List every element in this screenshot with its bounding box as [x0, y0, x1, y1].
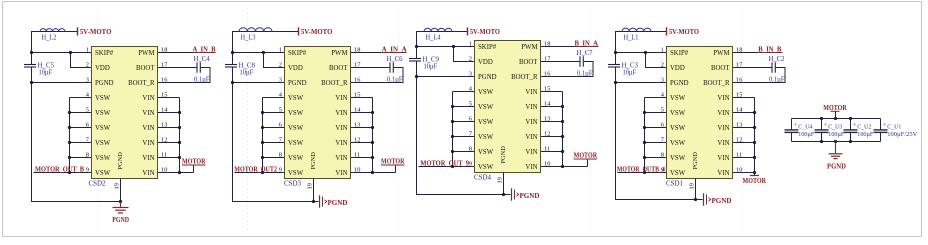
- svg-text:14: 14: [354, 106, 361, 113]
- svg-text:16: 16: [354, 76, 360, 83]
- svg-text:C_U3: C_U3: [828, 123, 843, 130]
- junctions VSW bus block3: [451, 105, 454, 108]
- svg-text:15: 15: [736, 91, 742, 98]
- svg-text:B_IN_B: B_IN_B: [758, 46, 781, 53]
- wire pin17 BOOT block1: [158, 67, 197, 69]
- svg-text:13: 13: [354, 121, 360, 128]
- svg-text:VSW: VSW: [478, 134, 494, 141]
- svg-text:17: 17: [354, 61, 361, 68]
- IC CSD2: [92, 47, 158, 179]
- junction pin3 block3: [415, 75, 418, 78]
- svg-text:VIN: VIN: [525, 104, 537, 111]
- wire PGND return block1: [32, 67, 121, 202]
- svg-text:17: 17: [544, 55, 551, 62]
- wire pin2 VDD elbow block3: [454, 47, 475, 62]
- svg-text:14: 14: [544, 100, 551, 107]
- wire pin18 PWM block3: [541, 46, 575, 48]
- svg-text:VDD: VDD: [478, 59, 493, 66]
- svg-text:6: 6: [661, 121, 664, 128]
- wires VSW pins 4-9 block4: [644, 98, 646, 173]
- svg-text:PGND: PGND: [478, 74, 497, 81]
- svg-text:MOTOR: MOTOR: [381, 157, 405, 165]
- svg-text:PWM: PWM: [713, 50, 729, 57]
- svg-text:VSW: VSW: [288, 140, 304, 147]
- svg-text:+: +: [853, 122, 857, 129]
- wire pin1 SKIP# block3: [417, 46, 475, 48]
- svg-text:VIN: VIN: [142, 170, 154, 177]
- svg-text:13: 13: [161, 121, 167, 128]
- svg-text:16: 16: [736, 76, 742, 83]
- capacitor H_C8 10uF: [225, 64, 237, 66]
- power port 5V-MOTO block4: [666, 27, 668, 35]
- svg-text:PGND: PGND: [827, 162, 846, 170]
- power port 5V-MOTO block3: [467, 27, 469, 35]
- svg-text:CSD4: CSD4: [474, 174, 491, 182]
- power port MOTOR block3: [563, 166, 588, 168]
- svg-text:16: 16: [161, 76, 167, 83]
- wires VSW pins 4-9 block1: [69, 98, 71, 173]
- svg-text:VIN: VIN: [525, 164, 537, 171]
- junction pin19 block1: [119, 200, 122, 203]
- pin names left block1: [95, 50, 114, 177]
- svg-text:VSW: VSW: [670, 125, 686, 132]
- capacitor H_C2 0.1uF: [771, 62, 773, 72]
- svg-text:19: 19: [307, 183, 314, 189]
- junction pin19 block3: [502, 193, 505, 196]
- capacitor H_C6 0.1uF: [389, 62, 391, 72]
- capacitor C_U3: [821, 119, 823, 130]
- wire pin16 BOOT_R loop block3: [541, 62, 594, 77]
- svg-text:PGND: PGND: [95, 80, 114, 87]
- svg-text:17: 17: [161, 61, 168, 68]
- svg-text:10µF: 10µF: [424, 63, 438, 70]
- svg-text:VIN: VIN: [142, 155, 154, 162]
- ground PGND bank: [835, 142, 837, 154]
- svg-text:C_U4: C_U4: [798, 123, 813, 130]
- svg-text:11: 11: [161, 151, 167, 158]
- svg-text:14: 14: [736, 106, 743, 113]
- svg-text:SKIP#: SKIP#: [95, 50, 114, 57]
- svg-text:9: 9: [86, 166, 89, 173]
- svg-text:15: 15: [544, 85, 550, 92]
- wires VSW pins 4-9 block3: [452, 92, 454, 167]
- svg-text:12: 12: [161, 136, 167, 143]
- svg-text:VIN: VIN: [717, 95, 729, 102]
- wire pin16 BOOT_R loop block1: [158, 68, 211, 83]
- svg-text:CSD2: CSD2: [89, 180, 106, 188]
- junction pin3 block2: [231, 81, 234, 84]
- capacitor C_U1: [880, 119, 882, 130]
- wire 5V-MOTO rail block1: [32, 32, 78, 65]
- svg-text:PWM: PWM: [138, 50, 154, 57]
- junction pin1 bus block3: [415, 45, 418, 48]
- svg-text:8: 8: [661, 151, 664, 158]
- svg-text:18: 18: [354, 46, 360, 53]
- svg-text:BOOT: BOOT: [519, 59, 538, 66]
- svg-text:VIN: VIN: [717, 125, 729, 132]
- svg-text:5V-MOTO: 5V-MOTO: [669, 27, 699, 36]
- wire pin2 VDD elbow block2: [264, 53, 285, 68]
- svg-text:13: 13: [736, 121, 742, 128]
- svg-text:VDD: VDD: [288, 65, 303, 72]
- svg-text:VIN: VIN: [717, 170, 729, 177]
- junctions VIN bus block4: [753, 111, 756, 114]
- wire pin17 BOOT block2: [351, 67, 390, 69]
- svg-text:VSW: VSW: [95, 170, 111, 177]
- svg-text:PGND: PGND: [117, 152, 124, 170]
- svg-text:VSW: VSW: [95, 140, 111, 147]
- svg-text:VIN: VIN: [717, 140, 729, 147]
- svg-text:10: 10: [544, 160, 550, 167]
- svg-text:C_U2: C_U2: [857, 123, 871, 130]
- wire MOTOR_OUT block3: [419, 166, 453, 168]
- junction pin3 block4: [614, 81, 617, 84]
- wire MOTOR_OUT block4: [618, 172, 645, 174]
- svg-text:3: 3: [279, 76, 282, 83]
- svg-text:MOTOR: MOTOR: [823, 104, 847, 112]
- wire pin19 block4: [695, 179, 697, 200]
- svg-text:2: 2: [279, 61, 282, 68]
- pin names right block1: [128, 50, 155, 177]
- inductor H_L2: [40, 29, 65, 32]
- svg-text:VIN: VIN: [335, 110, 347, 117]
- pin names right block4: [703, 50, 730, 177]
- capacitor H_C7 0.1uF: [579, 56, 581, 66]
- svg-text:MOTOR_OUT_9: MOTOR_OUT_9: [420, 160, 469, 168]
- svg-text:19: 19: [689, 183, 696, 189]
- power port PGND block3: [511, 188, 513, 200]
- svg-text:VSW: VSW: [478, 119, 494, 126]
- svg-text:5: 5: [279, 106, 282, 113]
- svg-text:8: 8: [279, 151, 282, 158]
- svg-text:BOOT: BOOT: [711, 65, 730, 72]
- wires VIN pins 10-15 block2: [372, 98, 374, 173]
- junction pin19 block2: [312, 200, 315, 203]
- svg-text:3: 3: [469, 70, 472, 77]
- svg-text:VSW: VSW: [478, 89, 494, 96]
- svg-text:VIN: VIN: [335, 155, 347, 162]
- power port MOTOR block1: [180, 172, 194, 174]
- svg-text:PGND: PGND: [670, 80, 689, 87]
- svg-text:19: 19: [114, 183, 121, 189]
- wire pin1 SKIP# block4: [616, 52, 667, 54]
- IC CSD1: [667, 47, 733, 179]
- capacitor H_C3 10uF: [608, 64, 620, 66]
- svg-text:100µF: 100µF: [798, 131, 814, 138]
- svg-text:MOTOR: MOTOR: [574, 151, 598, 159]
- svg-text:CSD1: CSD1: [666, 180, 683, 188]
- svg-text:VIN: VIN: [525, 134, 537, 141]
- svg-text:H_C3: H_C3: [622, 61, 639, 69]
- svg-text:2: 2: [469, 55, 472, 62]
- svg-text:VIN: VIN: [525, 89, 537, 96]
- svg-text:12: 12: [544, 130, 550, 137]
- svg-text:6: 6: [279, 121, 282, 128]
- svg-text:MOTOR_OUT2: MOTOR_OUT2: [234, 166, 277, 174]
- wire MOTOR top rail: [792, 118, 881, 120]
- svg-text:6: 6: [469, 115, 472, 122]
- svg-text:SKIP#: SKIP#: [670, 50, 689, 57]
- wire PGND return block3: [417, 61, 511, 195]
- pin numbers right block2: [354, 46, 361, 173]
- svg-text:100µF: 100µF: [828, 131, 844, 138]
- svg-text:VDD: VDD: [670, 65, 685, 72]
- svg-text:18: 18: [736, 46, 742, 53]
- svg-text:16: 16: [544, 70, 550, 77]
- svg-text:1: 1: [279, 46, 282, 53]
- svg-text:8: 8: [469, 145, 472, 152]
- pin numbers left block4: [661, 46, 665, 173]
- svg-text:H_L1: H_L1: [624, 34, 639, 42]
- pin names left block2: [288, 50, 307, 177]
- wires VSW pins 4-9 block2: [262, 98, 264, 173]
- wire 5V-MOTO rail block4: [616, 32, 667, 65]
- wire pin19 block1: [120, 179, 122, 202]
- svg-text:VIN: VIN: [142, 140, 154, 147]
- power port MOTOR bank: [835, 111, 837, 118]
- svg-text:VSW: VSW: [670, 170, 686, 177]
- svg-text:5V-MOTO: 5V-MOTO: [80, 27, 112, 36]
- svg-text:H_C6: H_C6: [387, 55, 403, 63]
- junction pin1 bus block2: [231, 51, 234, 54]
- wire pin3 PGND block3: [417, 76, 475, 78]
- svg-text:+: +: [824, 122, 828, 129]
- svg-text:11: 11: [354, 151, 360, 158]
- svg-text:VSW: VSW: [670, 110, 686, 117]
- svg-text:BOOT_R: BOOT_R: [511, 74, 538, 81]
- junction pin19 block4: [694, 198, 697, 201]
- power port 5V-MOTO block1: [77, 27, 79, 35]
- IC CSD4: [475, 41, 541, 173]
- wire pin17 BOOT block4: [733, 67, 772, 69]
- wire pin19 block2: [313, 179, 315, 202]
- svg-text:PGND: PGND: [520, 192, 540, 200]
- svg-text:5V-MOTO: 5V-MOTO: [301, 27, 333, 36]
- capacitor C_U4: [791, 119, 793, 130]
- svg-text:VIN: VIN: [335, 125, 347, 132]
- wire MOTOR_OUT block1: [34, 172, 70, 174]
- svg-text:VSW: VSW: [95, 110, 111, 117]
- wire pin16 BOOT_R loop block2: [351, 68, 404, 83]
- pin numbers left block2: [279, 46, 283, 173]
- capacitor H_C4 0.1uF: [196, 62, 198, 72]
- svg-text:VIN: VIN: [525, 149, 537, 156]
- svg-text:5: 5: [469, 100, 472, 107]
- wire pin3 PGND block2: [233, 82, 285, 84]
- svg-text:VSW: VSW: [288, 95, 304, 102]
- svg-text:VIN: VIN: [335, 95, 347, 102]
- svg-text:CSD3: CSD3: [284, 180, 301, 188]
- wire pin18 PWM block4: [733, 52, 759, 54]
- svg-text:MOTOR_OUTB_4: MOTOR_OUTB_4: [617, 166, 665, 174]
- svg-text:100µF: 100µF: [857, 131, 873, 138]
- svg-text:VSW: VSW: [478, 149, 494, 156]
- wire PGND return block4: [616, 67, 703, 200]
- wire PGND bottom rail: [792, 141, 881, 143]
- svg-text:+: +: [883, 122, 887, 129]
- svg-text:VSW: VSW: [288, 155, 304, 162]
- wires VIN pins 10-15 block4: [754, 98, 756, 176]
- svg-text:100µF/25V: 100µF/25V: [887, 131, 917, 138]
- svg-text:5V-MOTO: 5V-MOTO: [470, 27, 500, 36]
- wire MOTOR_OUT block2: [235, 172, 263, 174]
- wire pin17 BOOT block3: [541, 61, 580, 63]
- svg-text:VIN: VIN: [142, 125, 154, 132]
- svg-text:VSW: VSW: [95, 125, 111, 132]
- svg-text:PGND: PGND: [328, 199, 348, 207]
- wire 5V-MOTO rail block2: [233, 32, 299, 65]
- inductor H_L1: [622, 28, 651, 31]
- svg-text:3: 3: [661, 76, 664, 83]
- svg-text:VSW: VSW: [670, 155, 686, 162]
- wire pin1 SKIP# block1: [32, 52, 92, 54]
- svg-text:10µF: 10µF: [623, 69, 637, 76]
- junctions top rail: [820, 117, 823, 120]
- svg-text:H_L3: H_L3: [241, 34, 256, 42]
- svg-text:BOOT: BOOT: [329, 65, 348, 72]
- svg-text:H_C2: H_C2: [769, 55, 785, 63]
- svg-text:PWM: PWM: [331, 50, 347, 57]
- svg-text:H_L2: H_L2: [42, 34, 57, 42]
- junctions VSW bus block1: [68, 111, 71, 114]
- svg-text:PWM: PWM: [521, 44, 537, 51]
- svg-text:18: 18: [544, 40, 550, 47]
- wires VIN pins 10-15 block3: [562, 92, 564, 167]
- svg-text:10: 10: [161, 166, 167, 173]
- svg-text:BOOT_R: BOOT_R: [128, 80, 155, 87]
- svg-text:VSW: VSW: [95, 155, 111, 162]
- junction pin1 bus block4: [614, 51, 617, 54]
- ground PGND block1: [120, 202, 122, 208]
- svg-text:5: 5: [661, 106, 664, 113]
- svg-text:VIN: VIN: [717, 110, 729, 117]
- svg-text:10: 10: [736, 166, 742, 173]
- pin names right block3: [511, 44, 538, 171]
- wire pin3 PGND block4: [616, 82, 667, 84]
- svg-text:PGND: PGND: [712, 197, 732, 205]
- junction pin1 bus block1: [30, 51, 33, 54]
- svg-text:+: +: [794, 122, 798, 129]
- svg-text:VSW: VSW: [478, 164, 494, 171]
- pin numbers left block3: [469, 40, 473, 167]
- svg-text:H_C9: H_C9: [423, 55, 440, 63]
- svg-text:6: 6: [86, 121, 89, 128]
- svg-text:PGND: PGND: [692, 152, 699, 170]
- junctions VIN bus block1: [178, 111, 181, 114]
- svg-text:PGND: PGND: [310, 152, 317, 170]
- wires VIN pins 10-15 block1: [179, 98, 181, 173]
- svg-text:MOTOR: MOTOR: [743, 177, 767, 185]
- capacitor H_C5 10uF: [24, 64, 36, 66]
- svg-text:VSW: VSW: [288, 110, 304, 117]
- IC CSD3: [285, 47, 351, 179]
- wire pin18 PWM block2: [351, 52, 382, 54]
- pin numbers left block1: [86, 46, 90, 173]
- svg-text:2: 2: [86, 61, 89, 68]
- svg-text:10µF: 10µF: [39, 69, 53, 76]
- pin names left block4: [670, 50, 689, 177]
- svg-text:18: 18: [161, 46, 167, 53]
- wire pin1 SKIP# block2: [233, 52, 285, 54]
- svg-text:H_C4: H_C4: [194, 55, 210, 63]
- svg-text:H_C5: H_C5: [38, 61, 55, 69]
- junctions VSW bus block4: [643, 111, 646, 114]
- svg-text:15: 15: [354, 91, 360, 98]
- svg-text:11: 11: [736, 151, 742, 158]
- svg-text:MOTOR: MOTOR: [182, 157, 206, 165]
- svg-text:VSW: VSW: [95, 95, 111, 102]
- svg-text:10µF: 10µF: [240, 69, 254, 76]
- svg-text:H_L4: H_L4: [426, 34, 441, 42]
- svg-text:B_IN_A: B_IN_A: [575, 40, 599, 47]
- svg-text:SKIP#: SKIP#: [478, 44, 497, 51]
- svg-text:14: 14: [161, 106, 168, 113]
- svg-text:VSW: VSW: [478, 104, 494, 111]
- junctions VIN bus block2: [371, 111, 374, 114]
- svg-text:C_U1: C_U1: [887, 123, 901, 130]
- svg-text:H_C7: H_C7: [577, 49, 593, 57]
- pin numbers right block4: [736, 46, 743, 173]
- junction pin3 block1: [30, 81, 33, 84]
- svg-text:3: 3: [86, 76, 89, 83]
- svg-text:VIN: VIN: [525, 119, 537, 126]
- svg-text:BOOT_R: BOOT_R: [703, 80, 730, 87]
- svg-text:1: 1: [86, 46, 89, 53]
- wire pin2 VDD elbow block4: [646, 53, 667, 68]
- capacitor H_C9 10uF: [409, 58, 421, 60]
- wire pin16 BOOT_R loop block4: [733, 68, 786, 83]
- svg-text:15: 15: [161, 91, 167, 98]
- svg-text:VDD: VDD: [95, 65, 110, 72]
- pin names left block3: [478, 44, 497, 171]
- svg-text:MOTOR_OUT_B: MOTOR_OUT_B: [35, 166, 84, 174]
- pin numbers right block3: [544, 40, 551, 167]
- svg-text:2: 2: [661, 61, 664, 68]
- svg-text:19: 19: [497, 177, 504, 183]
- svg-text:17: 17: [736, 61, 743, 68]
- svg-text:11: 11: [544, 145, 550, 152]
- power port PGND block2: [319, 195, 321, 207]
- svg-text:9: 9: [469, 160, 472, 167]
- svg-text:VIN: VIN: [142, 110, 154, 117]
- svg-text:VSW: VSW: [288, 125, 304, 132]
- svg-text:9: 9: [279, 166, 282, 173]
- svg-text:12: 12: [354, 136, 360, 143]
- svg-text:13: 13: [544, 115, 550, 122]
- wire pin2 VDD elbow block1: [71, 53, 92, 68]
- svg-text:PGND: PGND: [112, 216, 129, 224]
- svg-text:BOOT_R: BOOT_R: [321, 80, 348, 87]
- svg-text:SKIP#: SKIP#: [288, 50, 307, 57]
- junctions VSW bus block2: [261, 111, 264, 114]
- svg-text:1: 1: [661, 46, 664, 53]
- svg-text:VIN: VIN: [335, 140, 347, 147]
- wire pin18 PWM block1: [158, 52, 193, 54]
- svg-text:VIN: VIN: [717, 155, 729, 162]
- svg-text:PGND: PGND: [288, 80, 307, 87]
- wire PGND return block2: [233, 67, 319, 202]
- svg-text:VSW: VSW: [288, 170, 304, 177]
- power port 5V-MOTO block2: [298, 27, 300, 35]
- svg-text:A_IN_A: A_IN_A: [382, 46, 407, 53]
- power port MOTOR block2: [373, 172, 396, 174]
- svg-text:VIN: VIN: [142, 95, 154, 102]
- wire pin19 block3: [503, 173, 505, 195]
- svg-text:VIN: VIN: [335, 170, 347, 177]
- svg-text:A_IN_B: A_IN_B: [193, 46, 216, 53]
- inductor H_L3: [239, 28, 272, 32]
- pin numbers right block1: [161, 46, 168, 173]
